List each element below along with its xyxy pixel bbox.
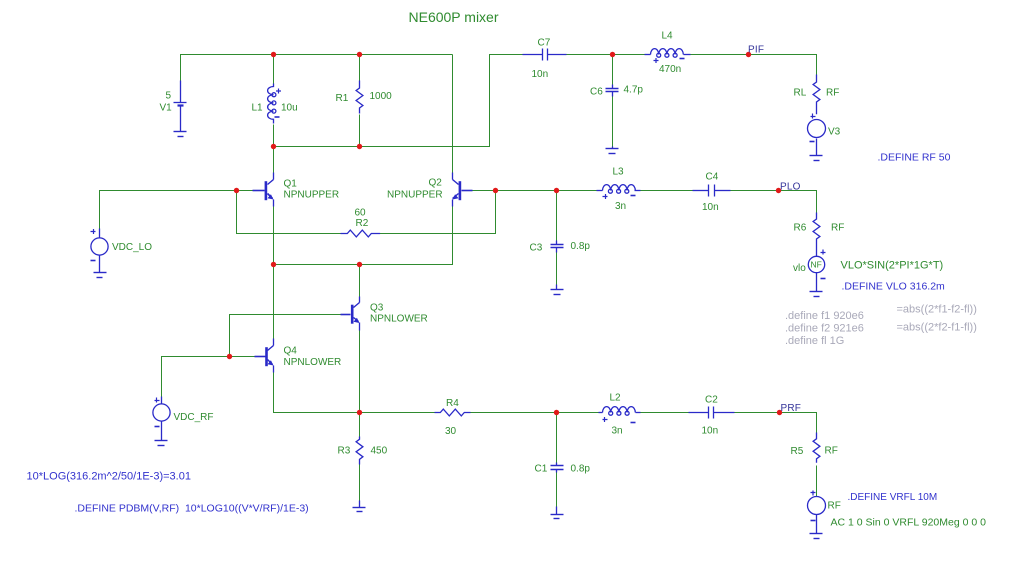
svg-text:NPNUPPER: NPNUPPER bbox=[284, 190, 340, 201]
wire emitter rail bbox=[274, 200, 453, 265]
node dot C3 tap bbox=[554, 188, 559, 193]
svg-text:V3: V3 bbox=[828, 127, 841, 138]
wire Q4 emitter drop and bottom rail start bbox=[274, 373, 435, 413]
VDC_LO top lead bbox=[99, 229, 101, 238]
svg-text:L3: L3 bbox=[613, 167, 625, 178]
transistor Q2 bbox=[453, 173, 473, 207]
node dot R3 tap bbox=[357, 410, 362, 415]
svg-text:VLO*SIN(2*PI*1G*T): VLO*SIN(2*PI*1G*T) bbox=[841, 260, 944, 272]
node dot emitter rail Q3 bbox=[357, 262, 362, 267]
svg-text:=abs((2*f2-f1-fl)): =abs((2*f2-f1-fl)) bbox=[897, 322, 977, 334]
wire C4 to PLO corner down to R6 bbox=[731, 191, 817, 213]
svg-text:PIF: PIF bbox=[748, 45, 764, 56]
svg-text:R1: R1 bbox=[336, 93, 349, 104]
L1 minus bbox=[275, 116, 280, 118]
svg-text:V1: V1 bbox=[160, 103, 173, 114]
ground vlo bbox=[810, 292, 823, 297]
svg-text:R2: R2 bbox=[356, 218, 369, 229]
node dot Q2 base jog bbox=[493, 188, 498, 193]
V3 bottom lead bbox=[816, 139, 818, 156]
svg-text:.DEFINE RF 50: .DEFINE RF 50 bbox=[878, 152, 951, 164]
wire Q3 emitter drop bbox=[359, 331, 361, 413]
svg-text:60: 60 bbox=[355, 208, 367, 219]
wire C1 top lead bbox=[556, 413, 558, 463]
VDC_LO bottom lead bbox=[99, 256, 101, 273]
source VDC_RF bbox=[153, 404, 170, 421]
wire Q1 collector drop bbox=[273, 147, 275, 173]
svg-text:R6: R6 bbox=[794, 223, 807, 234]
capacitor C4 bbox=[693, 185, 731, 197]
inductor L2 bbox=[599, 407, 641, 416]
VDC_RF minus bbox=[155, 426, 160, 428]
label L3 minus bbox=[631, 195, 636, 197]
svg-text:.DEFINE VLO 316.2m: .DEFINE VLO 316.2m bbox=[842, 281, 946, 293]
resistor R2 bbox=[341, 230, 381, 237]
RF minus bbox=[811, 520, 816, 522]
ground R3 bbox=[353, 501, 366, 512]
node dot C1 tap bbox=[554, 410, 559, 415]
wire C2 to PRF corner down to R5 bbox=[735, 413, 817, 433]
wire Q4 base row bbox=[162, 357, 255, 397]
svg-text:C7: C7 bbox=[538, 38, 551, 49]
resistor R6 bbox=[813, 213, 820, 257]
transistor Q1 bbox=[253, 173, 274, 207]
source RF bbox=[808, 497, 826, 515]
inductor L4 bbox=[645, 49, 691, 58]
svg-text:L2: L2 bbox=[610, 393, 622, 404]
wire R2 jog left bbox=[237, 191, 341, 234]
node dot PLO bbox=[776, 188, 781, 193]
svg-text:R4: R4 bbox=[446, 398, 459, 409]
svg-text:RF: RF bbox=[826, 88, 839, 99]
wire R4 to C1 node bbox=[471, 412, 599, 414]
capacitor C3 bbox=[551, 241, 564, 253]
svg-text:RF: RF bbox=[831, 223, 844, 234]
svg-text:NPNLOWER: NPNLOWER bbox=[284, 357, 342, 368]
svg-text:10*LOG(316.2m^2/50/1E-3)=3.01: 10*LOG(316.2m^2/50/1E-3)=3.01 bbox=[27, 471, 191, 483]
VDC_RF plus bbox=[155, 398, 160, 403]
node dot L1 bottom bbox=[271, 144, 276, 149]
svg-text:C4: C4 bbox=[706, 172, 719, 183]
svg-text:L1: L1 bbox=[252, 103, 264, 114]
source V3 bbox=[808, 120, 826, 138]
svg-text:10n: 10n bbox=[702, 426, 719, 437]
wire Q4 collector riser bbox=[273, 265, 275, 339]
svg-text:VDC_RF: VDC_RF bbox=[174, 412, 214, 423]
vlo minus bbox=[821, 278, 826, 280]
svg-text:.DEFINE PDBM(V,RF) 10*LOG10((: .DEFINE PDBM(V,RF) 10*LOG10((V*V/RF)/1E-… bbox=[75, 503, 309, 515]
resistor R4 bbox=[435, 409, 471, 416]
node dot C6 tap bbox=[610, 52, 615, 57]
wire C3 bottom lead bbox=[556, 253, 558, 285]
svg-text:3n: 3n bbox=[615, 201, 626, 212]
ground RF bbox=[810, 534, 823, 539]
svg-text:30: 30 bbox=[445, 426, 457, 437]
VDC_LO minus bbox=[91, 260, 96, 262]
node dot PIF bbox=[746, 52, 751, 57]
wire mid rail bbox=[274, 55, 523, 147]
svg-text:0.8p: 0.8p bbox=[571, 241, 591, 252]
wire L1 bottom lead bbox=[273, 125, 275, 147]
svg-text:0.8p: 0.8p bbox=[571, 464, 591, 475]
inductor L1 bbox=[268, 84, 276, 124]
svg-text:NF: NF bbox=[811, 260, 822, 270]
svg-text:Q3: Q3 bbox=[370, 303, 384, 314]
ground C6 bbox=[606, 147, 619, 154]
battery V1 bbox=[174, 81, 187, 132]
ground V1 bbox=[174, 132, 187, 137]
wire VDC_LO to Q1 base bbox=[100, 191, 253, 229]
svg-text:NE600P mixer: NE600P mixer bbox=[409, 9, 499, 25]
label L4 minus bbox=[680, 58, 685, 60]
svg-text:4.7p: 4.7p bbox=[624, 85, 644, 96]
wire R2 jog right bbox=[379, 191, 496, 234]
inductor L3 bbox=[597, 185, 641, 194]
wire L1 top lead bbox=[273, 55, 275, 85]
transistor Q4 bbox=[255, 339, 274, 373]
svg-text:VDC_LO: VDC_LO bbox=[112, 242, 152, 253]
VDC_RF top lead bbox=[161, 397, 163, 404]
source vlo bbox=[808, 256, 824, 272]
resistor RL bbox=[813, 75, 820, 115]
resistor R1 bbox=[356, 81, 363, 114]
label L2 minus bbox=[631, 422, 636, 424]
svg-text:C6: C6 bbox=[590, 87, 603, 98]
ground V3 bbox=[810, 156, 823, 161]
wire Q2 collector drop bbox=[452, 55, 454, 180]
V3 plus bbox=[811, 114, 816, 119]
svg-text:C3: C3 bbox=[530, 243, 543, 254]
VDC_LO plus bbox=[91, 229, 96, 234]
svg-text:C1: C1 bbox=[535, 464, 548, 475]
wire R1 top lead bbox=[359, 55, 361, 81]
RF plus bbox=[811, 491, 816, 496]
svg-text:NPNLOWER: NPNLOWER bbox=[370, 314, 428, 325]
svg-text:PRF: PRF bbox=[781, 403, 802, 414]
wire R1 bottom lead bbox=[359, 115, 361, 147]
svg-text:3n: 3n bbox=[612, 426, 623, 437]
resistor R3 bbox=[356, 437, 363, 465]
node dot L1 top bbox=[271, 52, 276, 57]
capacitor C1 bbox=[551, 463, 564, 473]
svg-text:L4: L4 bbox=[662, 31, 674, 42]
svg-text:1000: 1000 bbox=[370, 91, 393, 102]
node dot R1 top bbox=[357, 52, 362, 57]
ground VDC_LO bbox=[94, 273, 107, 278]
wire L2 to C2 bbox=[641, 412, 689, 414]
VDC_RF bottom lead bbox=[161, 421, 163, 441]
svg-text:AC 1 0 Sin 0 VRFL 920Meg 0 0 0: AC 1 0 Sin 0 VRFL 920Meg 0 0 0 bbox=[831, 517, 987, 529]
resistor R5 bbox=[813, 433, 820, 463]
svg-text:PLO: PLO bbox=[780, 182, 801, 193]
svg-text:10n: 10n bbox=[702, 202, 719, 213]
svg-text:5: 5 bbox=[166, 91, 172, 102]
wire Q2 base to L3 bbox=[473, 190, 597, 192]
label L2 plus bbox=[603, 417, 608, 422]
svg-text:C2: C2 bbox=[705, 395, 718, 406]
svg-text:RF: RF bbox=[825, 446, 838, 457]
label L3 plus bbox=[603, 194, 608, 199]
wire R3 top lead bbox=[359, 413, 361, 437]
svg-text:450: 450 bbox=[371, 446, 388, 457]
capacitor C2 bbox=[689, 407, 735, 419]
svg-text:R3: R3 bbox=[338, 446, 351, 457]
svg-text:.DEFINE VRFL 10M: .DEFINE VRFL 10M bbox=[848, 492, 938, 503]
capacitor C7 bbox=[523, 49, 567, 61]
svg-text:Q1: Q1 bbox=[284, 179, 298, 190]
svg-text:10u: 10u bbox=[281, 103, 298, 114]
wire C6 bottom lead to ground bbox=[612, 97, 614, 147]
wire L3 to C4 bbox=[641, 190, 693, 192]
svg-text:Q2: Q2 bbox=[429, 178, 443, 189]
L1 plus bbox=[276, 89, 281, 94]
wire R5 to RF source bbox=[816, 466, 818, 497]
node dot Q1 base bbox=[234, 188, 239, 193]
svg-text:.define f1 920e6: .define f1 920e6 bbox=[785, 310, 864, 322]
svg-text:vlo: vlo bbox=[793, 263, 806, 274]
source VDC_LO bbox=[91, 238, 108, 255]
wire C7 to C6 node bbox=[567, 54, 645, 56]
wire C3 top lead bbox=[556, 191, 558, 241]
vlo bottom lead bbox=[816, 273, 818, 292]
label L4 plus bbox=[654, 58, 659, 63]
wire Q3 collector riser bbox=[359, 265, 361, 297]
svg-text:.define f2 921e6: .define f2 921e6 bbox=[785, 323, 864, 335]
transistor Q3 bbox=[341, 297, 360, 331]
svg-text:.define fl 1G: .define fl 1G bbox=[785, 335, 844, 347]
svg-text:Q4: Q4 bbox=[284, 346, 298, 357]
ground C1 bbox=[551, 507, 564, 519]
svg-text:R5: R5 bbox=[791, 446, 804, 457]
V3 minus bbox=[810, 141, 815, 143]
node dot Q3 Q4 base join bbox=[227, 354, 232, 359]
RF bottom lead bbox=[816, 515, 818, 534]
svg-text:10n: 10n bbox=[532, 69, 549, 80]
wire C6 top lead bbox=[612, 55, 614, 85]
wire Q3 base to corner bbox=[230, 315, 341, 357]
node dot PRF bbox=[777, 410, 782, 415]
ground VDC_RF bbox=[155, 441, 168, 446]
node dot R1 bottom bbox=[357, 144, 362, 149]
svg-text:NPNUPPER: NPNUPPER bbox=[387, 190, 443, 201]
wire Q1 emitter down to emitter rail bbox=[273, 200, 275, 265]
node dot emitter rail left bbox=[271, 262, 276, 267]
wire top rail V1 net bbox=[181, 55, 453, 98]
ground C3 bbox=[551, 285, 564, 295]
capacitor C6 bbox=[606, 85, 619, 97]
svg-text:RF: RF bbox=[828, 501, 841, 512]
svg-text:470n: 470n bbox=[659, 64, 681, 75]
vlo plus bbox=[821, 250, 826, 255]
wire R3 bottom lead to ground bbox=[359, 465, 361, 501]
svg-text:RL: RL bbox=[794, 88, 807, 99]
wire L4 to PIF corner and down to RL bbox=[691, 55, 817, 75]
wire C1 bottom lead bbox=[556, 473, 558, 507]
svg-text:=abs((2*f1-f2-fl)): =abs((2*f1-f2-fl)) bbox=[897, 304, 977, 316]
